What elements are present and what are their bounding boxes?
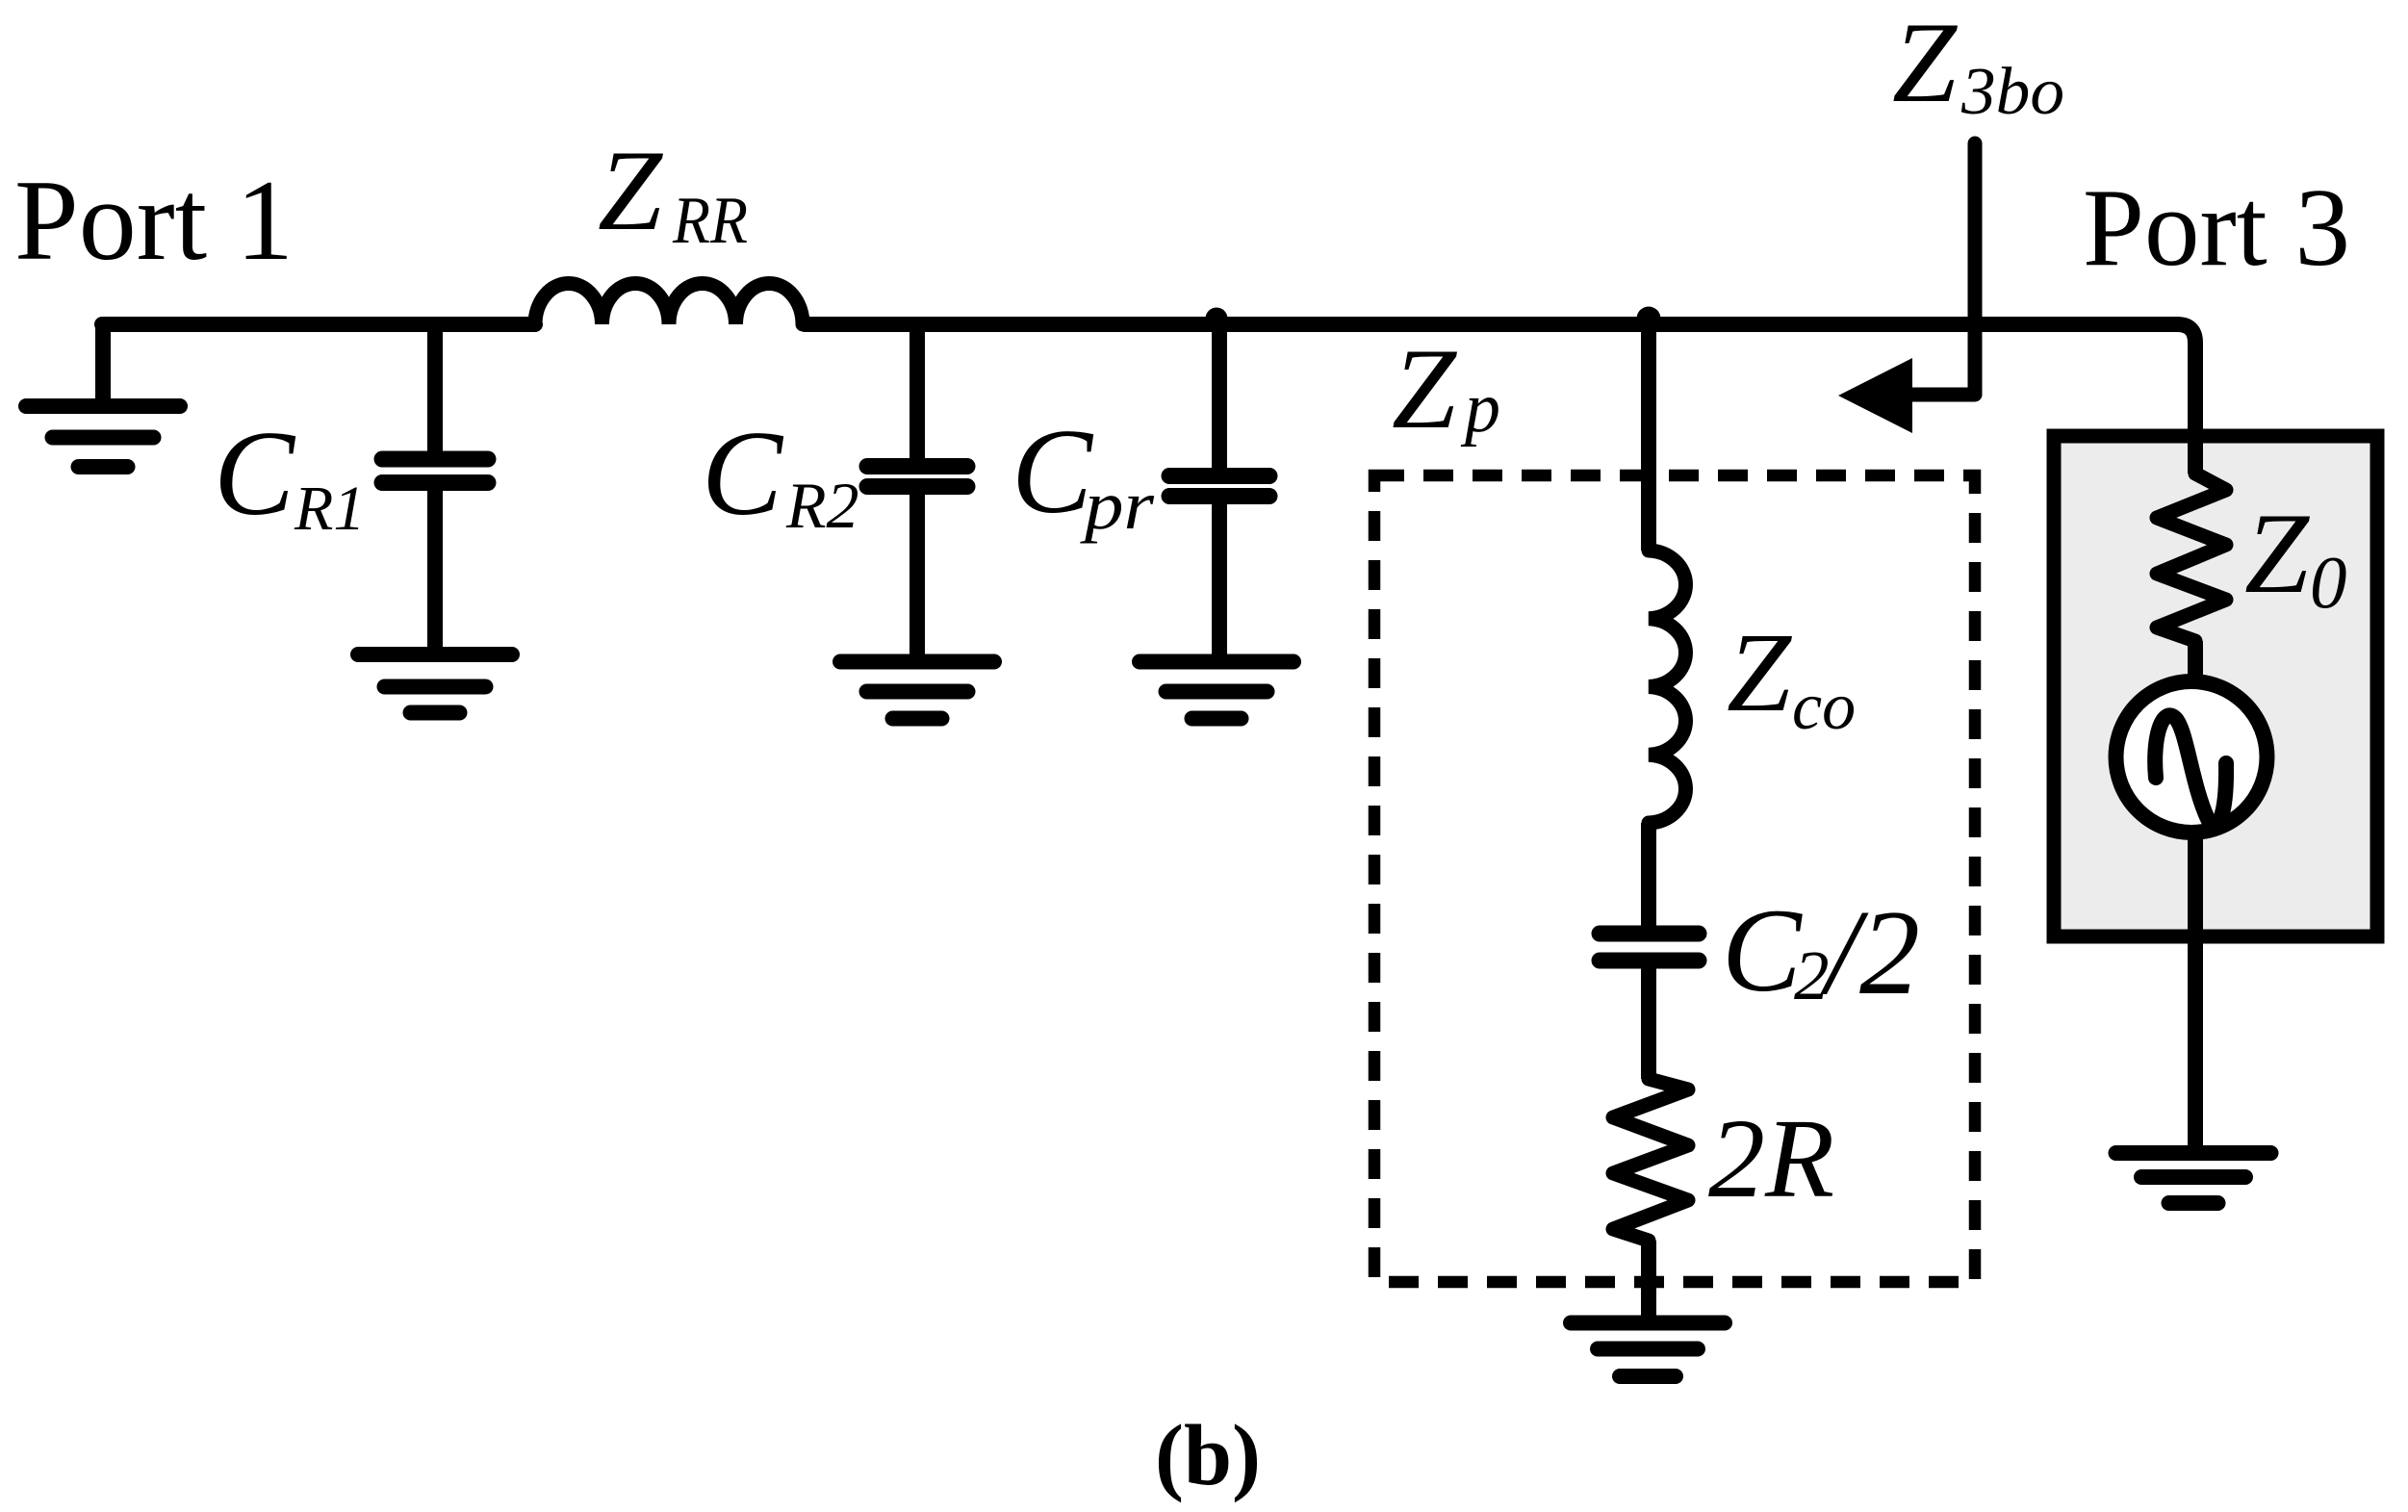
svg-text:Z: Z [1892,0,1958,126]
svg-text:0: 0 [2310,541,2347,624]
svg-text:Z: Z [1727,609,1792,735]
svg-text:(b): (b) [1155,1408,1261,1503]
svg-text:pr: pr [1079,467,1155,544]
svg-text:co: co [1792,670,1856,744]
svg-text:R1: R1 [294,474,365,544]
svg-text:2: 2 [1794,936,1830,1014]
svg-text:Port 1: Port 1 [14,156,294,284]
svg-text:C: C [1722,884,1803,1016]
svg-text:RR: RR [672,184,748,258]
svg-text:2R: 2R [1708,1095,1834,1221]
svg-text:Z: Z [598,126,663,254]
svg-text:3bo: 3bo [1960,55,2064,129]
svg-text:C: C [214,407,296,541]
svg-text:Z: Z [2244,489,2310,617]
svg-text:/2: /2 [1820,886,1920,1020]
svg-text:C: C [702,407,784,541]
svg-text:R2: R2 [785,469,859,542]
svg-text:p: p [1460,369,1500,448]
svg-text:Port 3: Port 3 [2083,167,2350,289]
svg-text:Z: Z [1392,324,1457,452]
svg-text:C: C [1012,405,1094,539]
